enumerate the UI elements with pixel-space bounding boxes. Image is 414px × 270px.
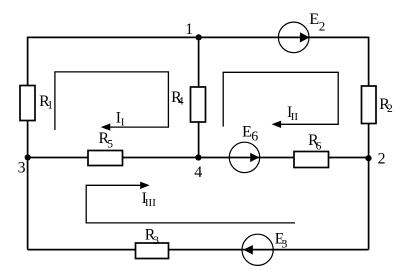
- node 2 junction dot: [365, 155, 371, 161]
- wire: left rail (node 3 branch, R1): [27, 37, 29, 250]
- EMF source E3: [242, 234, 273, 265]
- label R3: [145, 226, 159, 247]
- label I_II: [287, 104, 298, 123]
- svg-text:III: III: [145, 197, 156, 209]
- wire: bottom rail (R3, E3 branch): [28, 249, 369, 251]
- wire: top rail node1 to corners: [28, 36, 369, 38]
- node 4 junction dot: [195, 154, 201, 160]
- wire: right rail (node 2 branch, R2): [368, 37, 370, 250]
- svg-text:II: II: [291, 111, 299, 123]
- resistor R3: [136, 243, 169, 259]
- svg-text:1: 1: [185, 21, 193, 38]
- svg-text:3: 3: [281, 236, 287, 250]
- svg-text:1: 1: [47, 99, 53, 111]
- svg-text:5: 5: [107, 139, 113, 151]
- label R1: [39, 93, 53, 112]
- loop current I_I arrow: [55, 72, 168, 131]
- svg-text:4: 4: [194, 164, 202, 181]
- wire: middle vertical net 1-4 (R4 branch): [198, 37, 200, 157]
- svg-text:2: 2: [378, 151, 386, 168]
- label E6: [242, 122, 258, 145]
- resistor R6: [294, 152, 329, 168]
- label R6: [308, 132, 322, 152]
- label R5: [99, 130, 114, 151]
- resistor R4: [191, 87, 206, 122]
- resistor R5: [88, 151, 123, 166]
- svg-text:I: I: [121, 117, 125, 129]
- EMF source E6: [229, 142, 259, 172]
- loop current I_III arrow: [86, 182, 295, 223]
- svg-text:4: 4: [178, 96, 184, 108]
- node 3 junction dot: [25, 154, 31, 160]
- label I_III: [142, 190, 157, 209]
- resistor R1: [20, 86, 35, 121]
- node 1 junction dot: [196, 34, 202, 40]
- label E2: [309, 9, 325, 34]
- resistor R2: [362, 86, 377, 124]
- label R2: [379, 96, 393, 115]
- label E3: [275, 231, 288, 251]
- loop current I_II arrow: [223, 72, 338, 128]
- svg-text:2: 2: [387, 103, 393, 115]
- wire: middle horizontal net 3-4-2: [28, 157, 369, 159]
- svg-text:E: E: [309, 9, 319, 28]
- svg-text:3: 3: [18, 160, 26, 177]
- svg-text:6: 6: [316, 140, 322, 152]
- label R4: [171, 89, 184, 108]
- svg-text:3: 3: [153, 235, 159, 247]
- EMF source E2: [278, 22, 309, 53]
- label I_I: [116, 110, 125, 129]
- svg-text:6: 6: [251, 130, 258, 145]
- svg-text:2: 2: [319, 19, 326, 34]
